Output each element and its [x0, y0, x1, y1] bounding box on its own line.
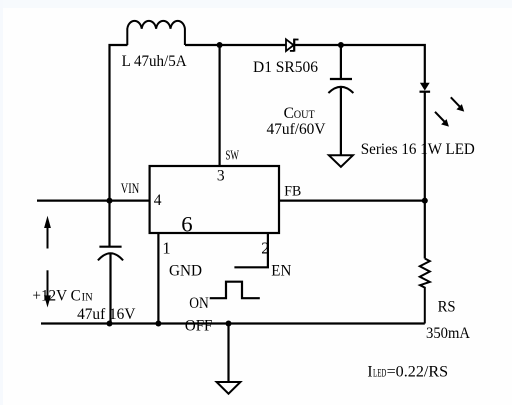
svg-text:ON: ON [189, 295, 209, 312]
svg-text:VIN: VIN [121, 181, 140, 197]
svg-text:RS: RS [438, 299, 456, 316]
svg-text:OFF: OFF [185, 317, 213, 334]
svg-text:C: C [284, 105, 294, 122]
svg-text:6: 6 [181, 211, 192, 236]
svg-text:+12V C: +12V C [32, 287, 80, 304]
svg-text:GND: GND [169, 263, 202, 280]
svg-text:47uf 16V: 47uf 16V [77, 306, 136, 323]
svg-text:2: 2 [261, 238, 269, 257]
svg-text:L 47uh/5A: L 47uh/5A [122, 53, 188, 70]
svg-text:I: I [367, 364, 372, 381]
svg-text:4: 4 [154, 192, 162, 209]
svg-text:EN: EN [271, 263, 291, 280]
svg-text:IN: IN [82, 291, 93, 303]
svg-text:D1 SR506: D1 SR506 [253, 59, 318, 76]
svg-text:=0.22/RS: =0.22/RS [387, 364, 449, 381]
svg-text:Series 16 1W LED: Series 16 1W LED [361, 141, 475, 158]
svg-text:OUT: OUT [294, 109, 315, 121]
svg-text:LED: LED [373, 368, 386, 380]
svg-text:SW: SW [225, 148, 239, 163]
svg-text:1: 1 [162, 238, 170, 257]
svg-text:FB: FB [284, 184, 301, 200]
svg-text:3: 3 [217, 167, 225, 184]
svg-text:350mA: 350mA [426, 325, 471, 342]
svg-text:47uf/60V: 47uf/60V [267, 121, 327, 138]
